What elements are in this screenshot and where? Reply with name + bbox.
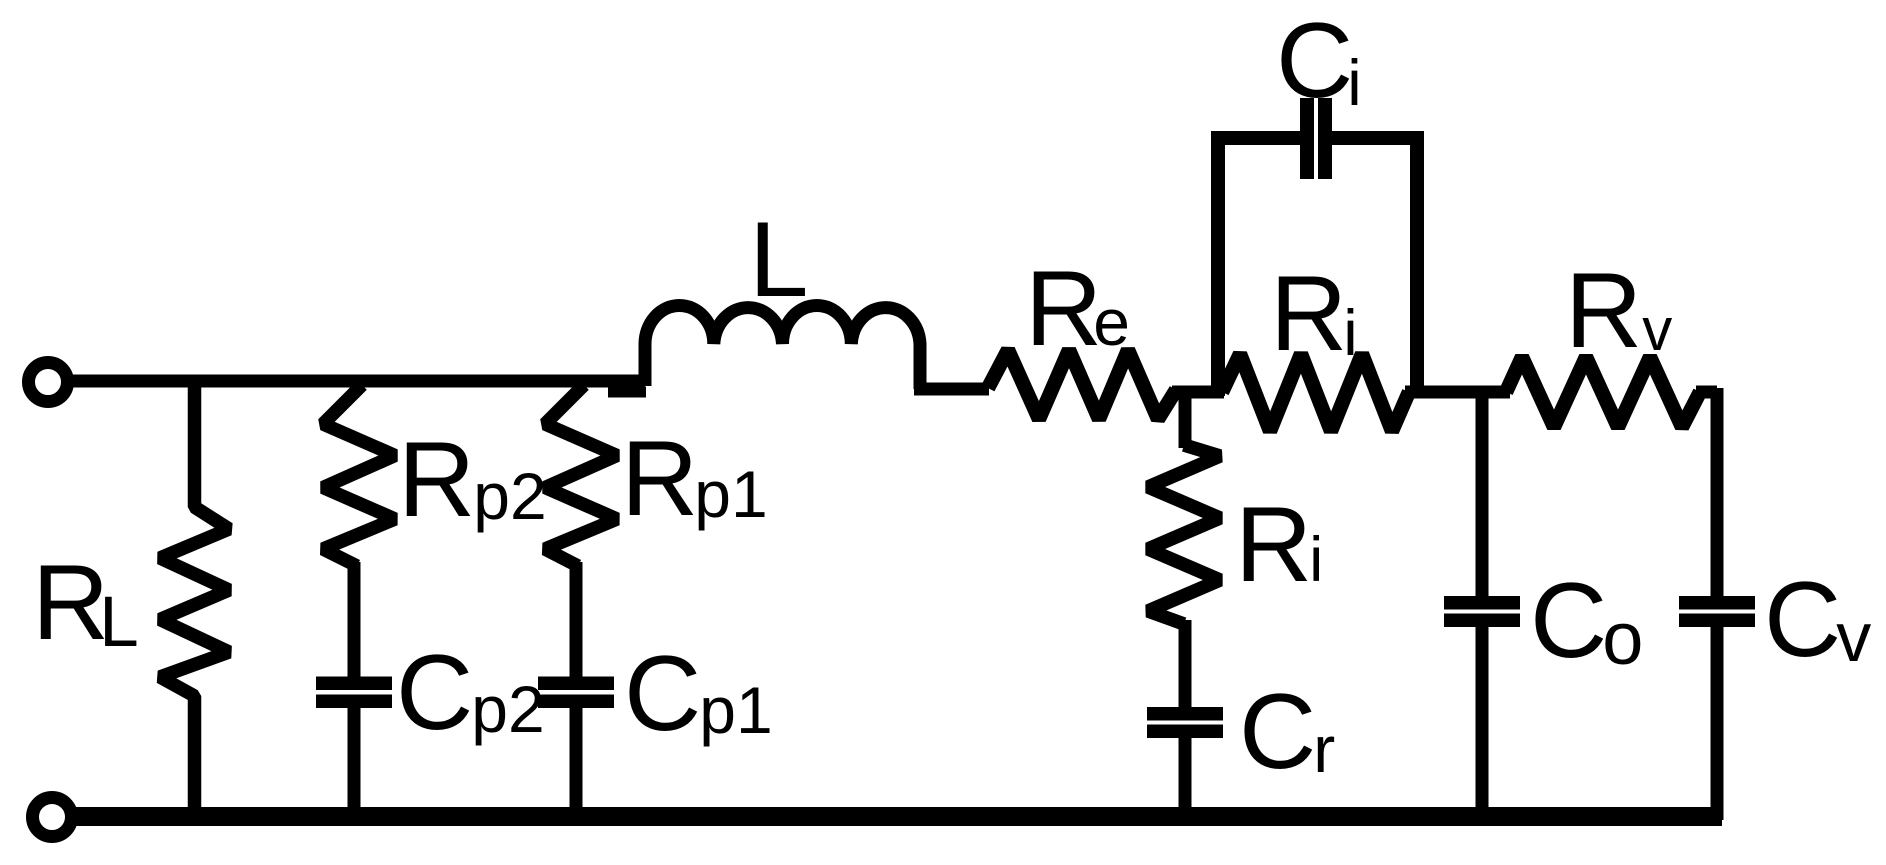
resistor Rv xyxy=(1506,357,1700,427)
resistor Rp2 xyxy=(323,385,395,566)
wire bottom rail xyxy=(73,807,1722,826)
wire node to Ri lower xyxy=(1179,386,1192,448)
wire node junction xyxy=(1172,386,1224,399)
wire Cp2 to bottom rail xyxy=(348,707,361,820)
resistor Ri top xyxy=(1222,354,1409,431)
capacitor Cp1 xyxy=(538,677,614,709)
terminal T1 top input xyxy=(29,363,68,402)
wire stub at inductor entrance xyxy=(608,387,646,398)
wire top rail xyxy=(68,375,645,388)
inductor L xyxy=(645,306,920,390)
wire Co to bottom rail xyxy=(1476,627,1489,820)
capacitor Co xyxy=(1444,596,1520,627)
wire Cv to bottom rail xyxy=(1711,627,1724,820)
wire Cr to bottom rail xyxy=(1179,738,1192,820)
wire Co branch top xyxy=(1476,386,1489,597)
wire Ci loop right xyxy=(1330,131,1417,392)
wire Cp1 to bottom rail xyxy=(570,707,583,820)
svg-text:Ri: Ri xyxy=(1235,484,1323,604)
wire Ri to Cr xyxy=(1179,620,1192,708)
svg-text:Ri: Ri xyxy=(1270,253,1358,373)
svg-text:Cv: Cv xyxy=(1764,559,1871,679)
capacitor Ci xyxy=(1300,98,1332,179)
svg-text:Cp1: Cp1 xyxy=(624,633,773,753)
svg-text:Rp1: Rp1 xyxy=(621,418,768,538)
svg-text:Re: Re xyxy=(1025,248,1130,368)
svg-text:Rv: Rv xyxy=(1565,250,1672,370)
resistor Rp1 xyxy=(545,385,617,566)
resistor Re xyxy=(988,350,1176,419)
capacitor Cv xyxy=(1679,596,1755,627)
svg-text:Co: Co xyxy=(1530,560,1643,680)
capacitor Cp2 xyxy=(316,677,392,709)
terminal T2 bottom input xyxy=(33,798,72,837)
wire Rp1 to Cp1 xyxy=(570,562,583,677)
svg-text:RL: RL xyxy=(32,542,139,662)
wire Rv to Cv xyxy=(1696,386,1717,399)
capacitor Cr xyxy=(1147,707,1223,738)
wire L to Re xyxy=(914,383,989,396)
svg-text:Cp2: Cp2 xyxy=(396,632,545,752)
resistor RL xyxy=(160,381,229,817)
resistor Ri lower xyxy=(1148,445,1220,624)
wire Rp2 to Cp2 xyxy=(348,562,361,677)
wire Cv branch top xyxy=(1711,388,1724,597)
svg-text:L: L xyxy=(749,199,809,319)
svg-text:Ci: Ci xyxy=(1276,0,1362,120)
wire Ci loop left xyxy=(1218,138,1302,396)
wire Ri to Rv xyxy=(1405,386,1510,399)
svg-text:Cr: Cr xyxy=(1239,671,1335,791)
svg-text:Rp2: Rp2 xyxy=(398,419,547,539)
